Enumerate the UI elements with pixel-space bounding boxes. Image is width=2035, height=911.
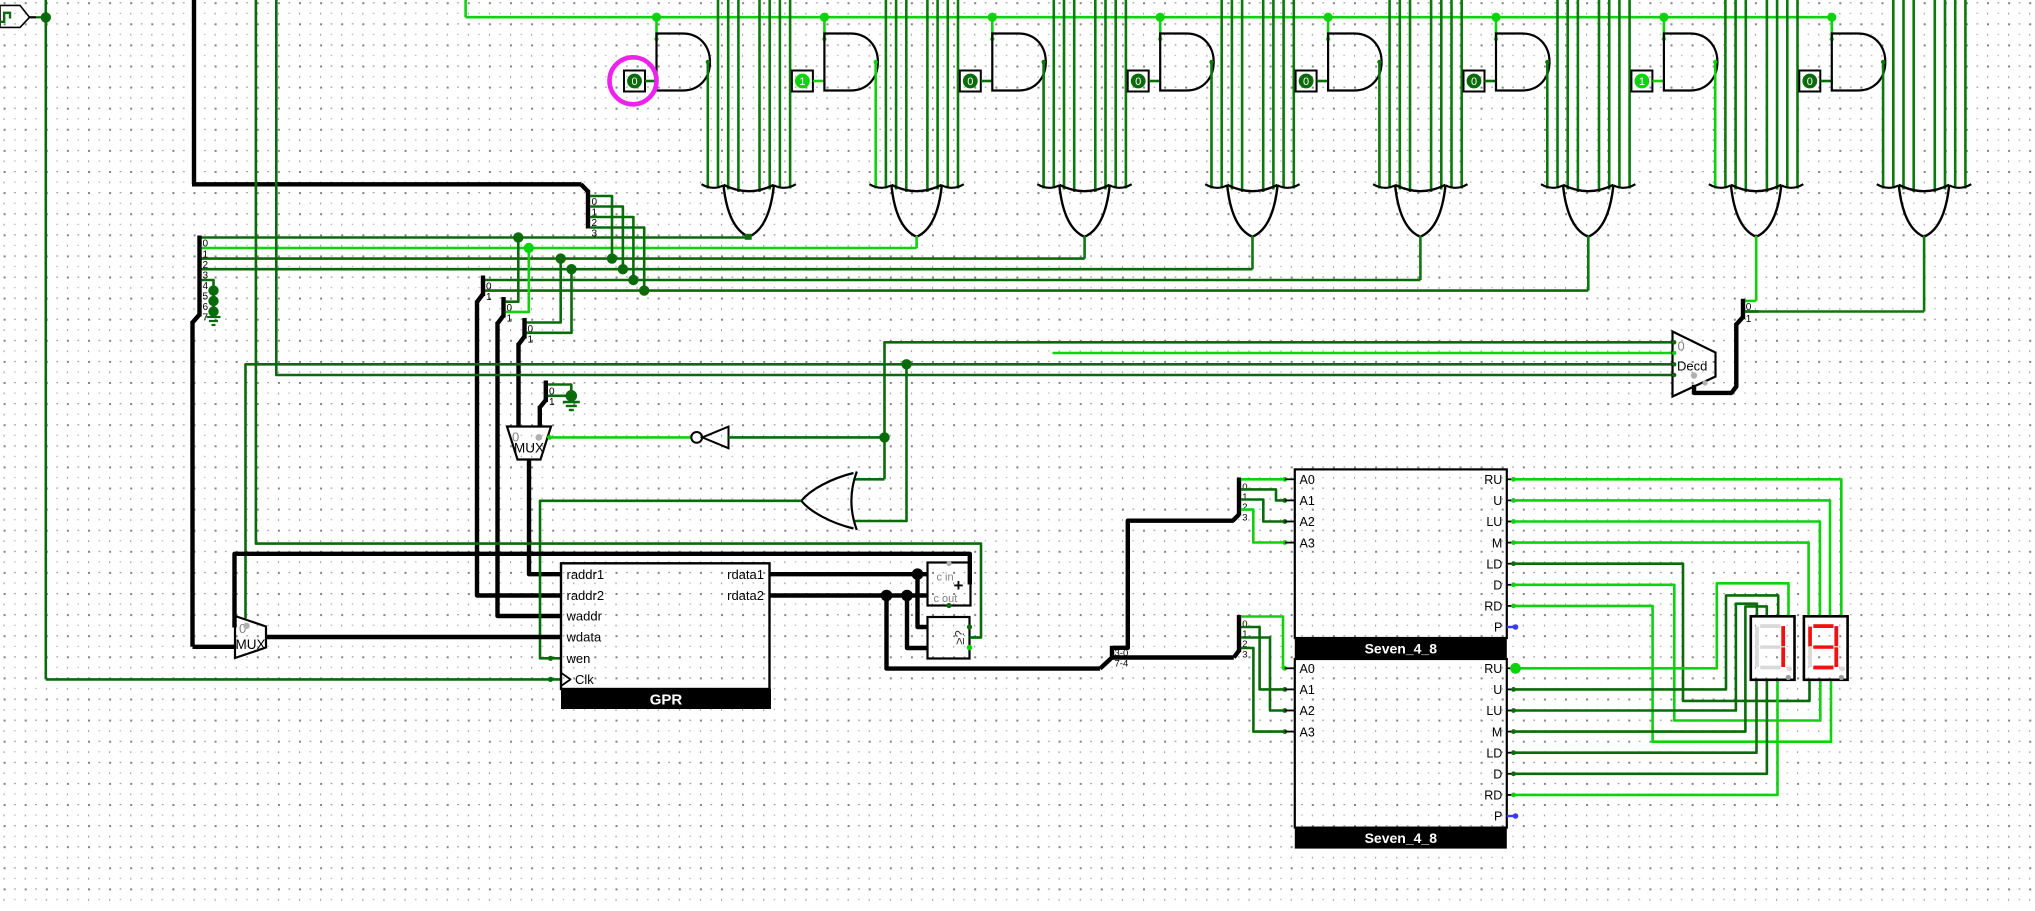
svg-text:A3: A3 [1300, 725, 1315, 739]
pin stub U10 A3 [1285, 542, 1295, 544]
mux M2 [235, 616, 266, 658]
junction R5 / S2 fan3 [639, 285, 649, 295]
svg-text:3: 3 [1242, 512, 1247, 523]
junction rail node gate 4 [1156, 13, 1165, 22]
wire OR6 output stub [1587, 236, 1590, 291]
wire AND5 output down to OR5 [1378, 61, 1381, 189]
junction rail node gate 1 [652, 13, 661, 22]
pin stub U11 LD [1507, 752, 1513, 754]
wire net R2 (OR3 out) [202, 257, 1085, 260]
svg-text:≥?: ≥? [952, 630, 967, 644]
decoder Decd [1673, 332, 1716, 397]
svg-text:1: 1 [203, 249, 209, 260]
svg-text:0: 0 [967, 76, 973, 88]
wire product-term 2.5 vertical [936, 0, 939, 190]
wire pin P7 to AND7 input B [1652, 80, 1664, 83]
ground G2 [570, 396, 572, 402]
svg-text:3: 3 [592, 228, 598, 239]
wire U10 LD [1513, 564, 1810, 701]
bus wire GPR rdata1 to adder [770, 572, 928, 576]
OR gate O5 [1373, 184, 1467, 188]
wire S7 fan2 [1241, 638, 1285, 711]
bus wire S5 fan 3-0 up [1113, 521, 1234, 648]
wire product-term 5.5 vertical [1440, 0, 1443, 190]
wire product-term 2.1 vertical [885, 0, 888, 189]
bus wire instruction horizontal to splitter S2 [192, 182, 582, 186]
wire MS3 fan0 up to R2 [527, 259, 561, 323]
wire pin P5 to AND5 input B [1317, 80, 1329, 83]
junction R1 / MS2 fan1 [524, 243, 534, 253]
input pin P8 value 0 [1799, 71, 1820, 92]
wire product-term 4.3 vertical [1241, 0, 1244, 192]
wire pin P2 to AND2 input B [813, 80, 825, 83]
pin stub U10 P [1507, 626, 1513, 628]
junction C2 / OR gate O9 input [901, 359, 911, 369]
input pin P2 value 1 [792, 71, 813, 92]
svg-text:raddr1: raddr1 [567, 567, 605, 582]
svg-text:rdata2: rdata2 [727, 588, 764, 603]
splitter MS2 spine [501, 297, 505, 318]
wire adder feedback (thick) [235, 554, 970, 628]
wire product-term 1.6 vertical [779, 0, 782, 189]
wire MS4 fan0 [548, 385, 572, 396]
wire net C0 corner [885, 342, 1673, 479]
svg-text:0: 0 [1303, 76, 1309, 88]
pin U10 P unconnected [1507, 626, 1514, 628]
svg-text:wen: wen [566, 651, 591, 666]
pin dot DS2 decimal [1839, 675, 1844, 680]
wire net R5 (OR6 out) [485, 289, 1588, 292]
AND gate U7 [1664, 34, 1718, 91]
wire product-term 4.2 vertical [1231, 0, 1234, 190]
wire S6 fan2 [1241, 500, 1285, 522]
pin stub U10 M [1507, 542, 1513, 544]
svg-text:1: 1 [507, 314, 513, 325]
pin stub U11 M [1507, 731, 1513, 733]
pin dot Decd out0 [1672, 340, 1676, 344]
wire O9 output to GPR wen [540, 501, 801, 659]
NOT gate N1 (facing left) [691, 432, 702, 443]
AND gate U8 [1832, 34, 1886, 91]
splitter S6 diagonal [1233, 515, 1239, 521]
svg-text:A3: A3 [1300, 536, 1315, 550]
wire MS4 fan1 [548, 394, 572, 397]
svg-text:6: 6 [203, 302, 209, 313]
wire pin P3 to AND3 input B [981, 80, 993, 83]
splitter MS5 spine [1741, 299, 1745, 319]
wire enable rail vertical from top [464, 0, 467, 17]
bus wire MS5 to Decd select [1694, 323, 1736, 393]
wire OR1 output to splitter S1 fan0 [745, 234, 752, 240]
junction R2 / S2 fan0 [607, 253, 617, 263]
OR gate O2 [869, 184, 963, 188]
svg-text:M: M [1492, 725, 1502, 739]
svg-text:LD: LD [1486, 746, 1502, 760]
splitter S6 spine [1237, 478, 1241, 516]
svg-text:c out: c out [934, 593, 958, 605]
junction S1 fan5 [208, 285, 218, 295]
wire pin P4 to AND4 input B [1149, 80, 1161, 83]
wire AND1 output down to OR1 [706, 61, 709, 189]
svg-text:0: 0 [1807, 76, 1813, 88]
svg-text:0: 0 [631, 76, 637, 88]
wire product-term 7.7 vertical [1796, 0, 1799, 189]
splitter S7 diagonal [1234, 651, 1239, 658]
pin stub U11 U [1507, 688, 1513, 690]
wire product-term 1.3 vertical [737, 0, 740, 192]
wire MS3 fan1 up to R3 [527, 269, 572, 333]
AND gate U4 [1160, 34, 1214, 91]
wire product-term 6.4 vertical [1598, 0, 1601, 192]
junction rdata2 node 1 [881, 590, 893, 602]
pin dot Decd out2 [1672, 362, 1676, 366]
svg-text:3: 3 [1242, 649, 1247, 660]
seven-segment display DS1 (digit 1) [1751, 616, 1795, 680]
wire AND7 output down to OR7 [1714, 61, 1717, 189]
svg-text:raddr2: raddr2 [567, 588, 605, 603]
wire product-term 3.2 vertical [1063, 0, 1066, 190]
wire product-term 3.4 vertical [1094, 0, 1097, 192]
wire product-term 6.7 vertical [1628, 0, 1631, 189]
svg-text:MUX: MUX [514, 441, 544, 456]
wire rail drop to AND6 input A [1495, 17, 1498, 39]
splitter MS4 diagonal [540, 400, 546, 408]
wire OR2 output stub [915, 236, 918, 248]
wire product-term 8.1 vertical [1892, 0, 1895, 189]
seven-segment display DS2 (digit 9) [1804, 616, 1848, 680]
bus wire M1 output to GPR raddr1 [529, 459, 561, 575]
wire product-term 1.5 vertical [768, 0, 771, 190]
wire product-term 2.3 vertical [905, 0, 908, 192]
wire net EQ vertical [256, 0, 981, 638]
bus wire instruction vertical [192, 0, 196, 184]
wire S2 fan0 [590, 196, 612, 259]
svg-text:0: 0 [1135, 76, 1141, 88]
pin U11 P unconnected [1507, 815, 1514, 817]
clock marker GPR [561, 673, 571, 686]
bus wire MS1 to GPR raddr2 [477, 301, 561, 596]
wire enable rail horizontal [466, 16, 1832, 19]
pin stub U10 A1 [1285, 499, 1295, 501]
svg-text:5: 5 [203, 291, 209, 302]
input pin P1 value 0 [624, 71, 645, 92]
svg-text:rdata1: rdata1 [727, 567, 764, 582]
wire OR7 output to splitter S5 fan0 [1745, 300, 1756, 303]
wire product-term 2.4 vertical [926, 0, 929, 192]
junction U11 RU pin [1510, 663, 1521, 674]
wire product-term 6.3 vertical [1577, 0, 1580, 192]
svg-text:LD: LD [1486, 557, 1502, 571]
wire U10 U [1513, 500, 1830, 616]
wire OR8 output down [1923, 236, 1926, 312]
pin stub U10 U [1507, 499, 1513, 501]
svg-text:0: 0 [486, 282, 492, 293]
svg-text:0: 0 [203, 239, 209, 250]
pin stub U11 LU [1507, 710, 1513, 712]
junction rdata1 / comparator A [912, 568, 924, 580]
svg-text:1: 1 [1639, 76, 1645, 88]
wire product-term 5.6 vertical [1450, 0, 1453, 189]
wire product-term 4.7 vertical [1293, 0, 1296, 189]
wire product-term 2.7 vertical [957, 0, 960, 189]
bus wire MS2 to GPR waddr [498, 322, 562, 616]
bus wire rdata1 down to comparator input A [918, 574, 928, 627]
junction S1 fan6 [208, 296, 218, 306]
GPR register file block [561, 563, 770, 689]
wire product-term 8.4 vertical [1934, 0, 1937, 192]
junction MS4 ground node [566, 390, 578, 402]
wire product-term 8.7 vertical [1964, 0, 1967, 189]
splitter S7 spine [1237, 615, 1241, 652]
wire product-term 7.2 vertical [1734, 0, 1737, 190]
wire product-term 6.6 vertical [1618, 0, 1621, 189]
wire product-term 3.5 vertical [1104, 0, 1107, 190]
wire rail drop to AND4 input A [1159, 17, 1162, 39]
svg-text:1: 1 [486, 292, 492, 303]
svg-text:A0: A0 [1300, 662, 1315, 676]
svg-text:P: P [1494, 810, 1502, 824]
ground G1 [212, 312, 214, 318]
svg-text:RU: RU [1484, 473, 1502, 487]
wire U10 RD [1513, 606, 1831, 742]
wire S7 fan1 [1241, 627, 1285, 689]
wire product-term 8.3 vertical [1912, 0, 1915, 192]
pin stub U11 A1 [1285, 688, 1295, 690]
wire AND3 output down to OR3 [1042, 61, 1045, 189]
junction rail node gate 5 [1324, 13, 1333, 22]
svg-text:Decd: Decd [1677, 358, 1707, 373]
wire rail drop to AND8 input A [1831, 17, 1834, 39]
wire product-term 3.1 vertical [1053, 0, 1056, 189]
svg-text:LU: LU [1486, 704, 1502, 718]
bus wire S1 to MUX M2 input 1 [193, 645, 236, 649]
splitter S1 spine [197, 236, 201, 317]
svg-text:D: D [1493, 579, 1502, 593]
junction rail node gate 8 [1827, 13, 1836, 22]
wire AND2 output down to OR2 [874, 61, 877, 189]
OR gate O4 [1205, 184, 1299, 188]
AND gate U2 [824, 34, 878, 91]
wire product-term 6.5 vertical [1608, 0, 1611, 190]
svg-text:A1: A1 [1300, 494, 1315, 508]
wire product-term 4.4 vertical [1262, 0, 1265, 192]
wire product-term 7.6 vertical [1786, 0, 1789, 189]
wire S2 fan2 [590, 217, 633, 280]
bus wire S1 down [190, 321, 194, 647]
wire S6 fan1 [1241, 489, 1285, 500]
splitter MS1 diagonal [477, 294, 483, 302]
Seven_4_8 upper U10 block [1295, 469, 1507, 638]
wire rail drop to AND2 input A [823, 17, 826, 39]
wire rail drop to AND7 input A [1663, 17, 1666, 39]
wire product-term 3.7 vertical [1125, 0, 1128, 189]
OR gate O9 (facing left) [851, 472, 856, 531]
AND gate U6 [1496, 34, 1550, 91]
input pin P4 value 0 [1128, 71, 1149, 92]
pin stub U10 A0 [1285, 478, 1295, 480]
OR gate O1 [702, 184, 796, 188]
wire product-term 1.7 vertical [789, 0, 792, 189]
svg-text:Seven_4_8: Seven_4_8 [1365, 830, 1438, 846]
AND gate U3 [992, 34, 1046, 91]
wire AND6 output down to OR6 [1546, 61, 1549, 189]
Seven_4_8 lower U11 block [1295, 659, 1507, 828]
svg-text:2: 2 [203, 260, 209, 271]
splitter MS2 diagonal [498, 316, 504, 324]
wire S2 fan3 [590, 228, 644, 291]
wire OR8 output to splitter S5 fan1 [1745, 310, 1924, 313]
wire OR3 output stub [1083, 236, 1086, 259]
svg-text:1: 1 [1746, 314, 1752, 325]
wire MS2 fan1 up to R1 bright [506, 248, 529, 312]
splitter S2 diagonal [581, 184, 588, 191]
wire U11 LU [1513, 604, 1757, 711]
wire U11 LD [1513, 680, 1757, 753]
svg-text:P: P [1494, 621, 1502, 635]
highlight circle (magenta annotation) [610, 57, 657, 104]
wire MS2 fan0 up to R0 [506, 238, 519, 302]
wire product-term 8.2 vertical [1902, 0, 1905, 190]
svg-text:RU: RU [1484, 662, 1502, 676]
pin stub U11 RU [1507, 667, 1513, 669]
pin stub U11 A3 [1285, 731, 1295, 733]
wire S6 fan0 bright [1241, 478, 1285, 481]
wire U10 M [1513, 543, 1809, 617]
OR gate O8 [1877, 184, 1971, 188]
junction NOT input node [879, 432, 889, 442]
wire net R4 (OR5 out) [485, 279, 1420, 282]
junction rail node gate 7 [1659, 13, 1668, 22]
comparator CMP1 [928, 617, 970, 659]
wire pin P1 to AND1 input B [645, 80, 657, 83]
pin stub U11 A0 [1285, 667, 1295, 669]
pin stub U10 A2 [1285, 521, 1295, 523]
wire U10 RU [1513, 479, 1841, 616]
wire S6 fan3 bright [1241, 510, 1285, 543]
OR gate O6 [1541, 184, 1635, 188]
svg-text:M: M [1492, 536, 1502, 550]
wire product-term 7.5 vertical [1776, 0, 1779, 190]
wire product-term 7.4 vertical [1766, 0, 1769, 192]
wire OR gate O9 input 1 [854, 478, 885, 481]
wire product-term 7.3 vertical [1745, 0, 1748, 192]
splitter S5 bus diagonal [1100, 658, 1112, 669]
svg-text:LU: LU [1486, 515, 1502, 529]
wire rail drop to AND5 input A [1327, 17, 1330, 39]
svg-text:U: U [1493, 683, 1502, 697]
svg-text:D: D [1493, 768, 1502, 782]
wire U11 M [1513, 606, 1767, 731]
pin stub U10 LU [1507, 521, 1513, 523]
junction R0 / MS2 fan0 [513, 232, 523, 242]
wire U11 RD bright [1513, 680, 1778, 795]
wire rail drop to AND3 input A [991, 17, 994, 39]
bus wire M2 output to GPR wdata [266, 635, 561, 639]
svg-text:A1: A1 [1300, 683, 1315, 697]
junction R3 / MS3 fan1 [566, 264, 576, 274]
svg-text:MUX: MUX [236, 637, 266, 652]
junction rail node gate 3 [988, 13, 997, 22]
wire net R3 (OR4 out) [202, 268, 1253, 271]
pin stub U11 RD [1507, 794, 1513, 796]
wire product-term 4.1 vertical [1220, 0, 1223, 189]
wire product-term 4.5 vertical [1272, 0, 1275, 190]
input pin P7 value 1 [1631, 71, 1652, 92]
svg-text:0: 0 [1471, 76, 1477, 88]
wire pin P6 to AND6 input B [1485, 80, 1497, 83]
wire rail drop to AND1 input A [655, 17, 658, 39]
wire product-term 5.3 vertical [1409, 0, 1412, 192]
wire OR7 output down [1755, 236, 1758, 301]
wire M1 select bright to NOT gate [548, 436, 691, 439]
wire product-term 1.1 vertical [717, 0, 720, 189]
svg-text:A2: A2 [1300, 515, 1315, 529]
splitter S1 bus diagonal [193, 315, 200, 323]
wire net C3 [276, 0, 1672, 375]
wire clock to GPR Clk [46, 678, 561, 681]
bus wire MS4 to MUX M1 input 1 [538, 406, 542, 427]
wire MS5 fan1 stub [1745, 310, 1759, 313]
splitter MS5 diagonal [1736, 317, 1743, 325]
splitter MS3 spine [522, 318, 526, 339]
AND gate U5 [1328, 34, 1382, 91]
wire net C1 bright [1053, 352, 1673, 355]
bus wire GPR rdata2 to adder input B [770, 593, 928, 597]
OR gate O7 [1709, 184, 1803, 188]
svg-text:A2: A2 [1300, 704, 1315, 718]
svg-text:A0: A0 [1300, 473, 1315, 487]
svg-text:Seven_4_8: Seven_4_8 [1365, 641, 1438, 657]
wire U11 D [1513, 680, 1767, 774]
junction S1 fan7 [208, 306, 218, 316]
wire U10 LU [1513, 522, 1820, 617]
wire comparator EQ output [970, 636, 982, 639]
wire clock vertical run [44, 0, 47, 679]
junction rail node gate 2 [820, 13, 829, 22]
wire product-term 3.3 vertical [1073, 0, 1076, 192]
svg-text:1: 1 [799, 76, 805, 88]
wire OR4 output stub [1251, 236, 1254, 269]
junction R4 / S2 fan2 [628, 275, 638, 285]
junction R2 / MS3 fan0 [556, 253, 566, 263]
wire product-term 5.4 vertical [1430, 0, 1433, 192]
svg-text:RD: RD [1484, 789, 1502, 803]
junction R3 / S2 fan1 [618, 264, 628, 274]
wire product-term 5.7 vertical [1460, 0, 1463, 189]
OR gate O3 [1037, 184, 1131, 188]
input pin P3 value 0 [960, 71, 981, 92]
bus wire S5 fan 7-4 to splitter S7 [1113, 655, 1234, 659]
wire product-term 3.6 vertical [1114, 0, 1117, 189]
pin dot Decd out3 [1672, 373, 1676, 377]
pin dot Decd out1 [1672, 351, 1676, 355]
svg-text:U: U [1493, 494, 1502, 508]
wire product-term 7.1 vertical [1724, 0, 1727, 189]
wire U10 D [1513, 585, 1820, 721]
mux M1 [507, 427, 551, 460]
bus wire rdata2 to display splitter S5 [887, 596, 1101, 669]
wire AND4 output down to OR4 [1210, 61, 1213, 189]
wire U11 U [1513, 595, 1778, 689]
junction clock node [41, 12, 51, 22]
wire product-term 5.2 vertical [1399, 0, 1402, 190]
wire product-term 2.2 vertical [895, 0, 898, 190]
pin stub U10 RU [1507, 478, 1513, 480]
svg-text:1: 1 [528, 335, 534, 346]
svg-text:wdata: wdata [566, 630, 602, 645]
wire net R0 (OR1 out) [202, 236, 749, 239]
bus wire rdata2 down to comparator input B [907, 596, 928, 649]
